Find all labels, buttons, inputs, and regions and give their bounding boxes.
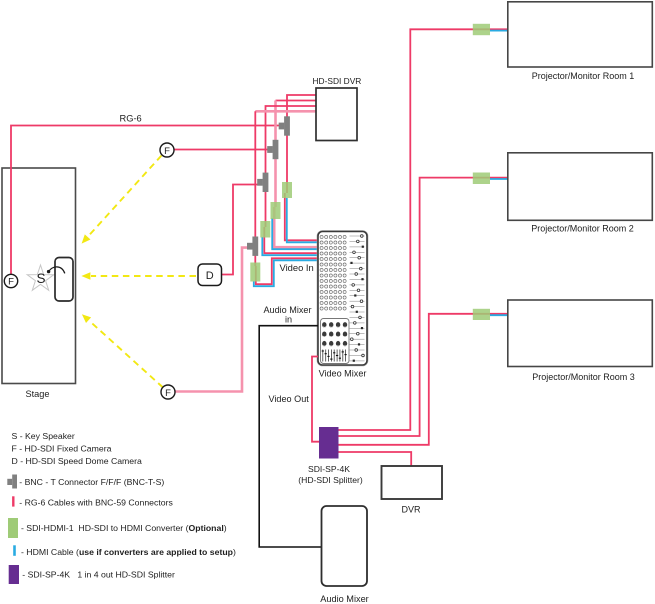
BNC T-connector T2: [267, 140, 278, 159]
SDI-HDMI converter G2: [271, 202, 281, 219]
BNC T-connector T4: [247, 237, 258, 256]
BNC T-connector T3: [257, 173, 268, 192]
video mixer U1: [318, 232, 367, 366]
svg-text:F: F: [165, 388, 171, 399]
projector room 3 box: [508, 300, 653, 367]
svg-text:Projector/Monitor Room 3: Projector/Monitor Room 3: [532, 372, 635, 382]
wire audio mixer in (black): [259, 326, 322, 547]
wire RG-6 from camera F1 to T1: [11, 126, 281, 276]
camera D box: [198, 264, 222, 286]
wire trunk 4 to HD-SDI DVR: [255, 110, 316, 113]
HDMI cable room 3: [490, 314, 508, 316]
camera F2: [160, 143, 174, 157]
wire trunk 1 to HD-SDI DVR: [287, 95, 316, 193]
wire video out: [312, 357, 320, 442]
wire trunk 2 to HD-SDI DVR: [276, 100, 317, 102]
svg-text:S: S: [36, 271, 45, 286]
HD-SDI DVR box: [316, 88, 357, 141]
converter room 1: [473, 24, 490, 35]
splitter SDI-SP-4K: [319, 427, 339, 459]
svg-text:Projector/Monitor Room 1: Projector/Monitor Room 1: [532, 71, 635, 81]
svg-text:Video Out: Video Out: [269, 394, 310, 404]
wire converter 1 tail to mixer: [285, 193, 318, 240]
SDI-HDMI converter G3: [260, 221, 270, 238]
SDI-HDMI converter G1: [282, 182, 292, 198]
svg-text:Stage: Stage: [26, 389, 50, 399]
svg-text:D - HD-SDI Speed Dome Camera: D - HD-SDI Speed Dome Camera: [12, 456, 143, 466]
svg-text:SDI-SP-4K: SDI-SP-4K: [308, 464, 350, 474]
svg-text:DVR: DVR: [401, 505, 421, 515]
BNC T-connector T1: [279, 116, 290, 135]
camera sight line arrow 2 (from D to stage): [91, 275, 196, 277]
camera sight line arrow 3 (from F bottom to stage): [89, 321, 163, 388]
svg-text:- SDI-SP-4K 1 in 4 out HD-SD: - SDI-SP-4K 1 in 4 out HD-SDI Splitter: [22, 570, 175, 580]
svg-text:Video Mixer: Video Mixer: [319, 368, 367, 378]
wire converter 2 tail to mixer: [274, 207, 318, 247]
svg-text:- BNC - T Connector F/F/F (BNC: - BNC - T Connector F/F/F (BNC-T-S): [19, 477, 164, 487]
camera F3: [161, 385, 175, 399]
podium: [55, 258, 73, 302]
projector room 2 box: [508, 153, 653, 221]
svg-text:F: F: [164, 146, 170, 157]
svg-text:F - HD-SDI Fixed Camera: F - HD-SDI Fixed Camera: [12, 443, 112, 453]
svg-text:in: in: [285, 315, 292, 325]
svg-text:Audio Mixer: Audio Mixer: [320, 594, 369, 604]
wire splitter out 4 to DVR: [339, 452, 412, 466]
legend BNC T connector icon: [7, 475, 17, 489]
svg-text:Projector/Monitor Room 2: Projector/Monitor Room 2: [531, 224, 634, 234]
converter room 2: [473, 173, 490, 185]
svg-text:- SDI-HDMI-1 HD-SDI to HDMI C: - SDI-HDMI-1 HD-SDI to HDMI Converter (O…: [21, 523, 227, 533]
wire splitter out 1: [339, 29, 508, 430]
audio mixer box: [322, 506, 368, 586]
svg-text:- RG-6 Cables with BNC-59 Conn: - RG-6 Cables with BNC-59 Connectors: [19, 498, 173, 508]
svg-text:HD-SDI DVR: HD-SDI DVR: [313, 76, 362, 86]
wire converter 3 tail to mixer: [264, 227, 318, 253]
wire splitter out 2: [339, 178, 508, 436]
camera F1: [4, 274, 17, 287]
svg-text:F: F: [8, 277, 14, 288]
wire splitter out 3: [339, 314, 508, 445]
svg-text:- HDMI Cable (use if converter: - HDMI Cable (use if converters are appl…: [21, 547, 236, 557]
legend SDI-HDMI converter icon: [8, 518, 18, 538]
svg-text:Video In: Video In: [280, 262, 314, 273]
SDI-HDMI converter G4: [250, 263, 260, 282]
svg-text:D: D: [206, 270, 214, 282]
svg-text:RG-6: RG-6: [120, 114, 142, 124]
projector room 1 box: [508, 2, 653, 67]
legend RG-6 cable icon: [12, 496, 14, 506]
key speaker star S: [27, 265, 54, 290]
HDMI cable room 1: [490, 30, 508, 32]
converter room 3: [473, 309, 490, 320]
legend SDI-SP-4K icon: [9, 565, 19, 584]
svg-text:S - Key Speaker: S - Key Speaker: [12, 431, 75, 441]
speaker arrow: [49, 267, 65, 274]
svg-text:(HD-SDI Splitter): (HD-SDI Splitter): [298, 475, 363, 485]
wire camera F2 to T2: [174, 149, 270, 151]
camera sight line arrow 1 (from F top to stage): [88, 156, 162, 237]
wire camera F3 to T4: [175, 248, 249, 392]
wire converter 4 tail to mixer: [256, 258, 318, 284]
HDMI cable room 2: [490, 178, 508, 180]
wire trunk 3 to HD-SDI DVR: [266, 106, 317, 227]
wire camera D to T3: [222, 185, 260, 275]
stage box: [2, 168, 76, 384]
legend HDMI cable icon: [13, 545, 16, 556]
DVR box: [382, 466, 443, 499]
